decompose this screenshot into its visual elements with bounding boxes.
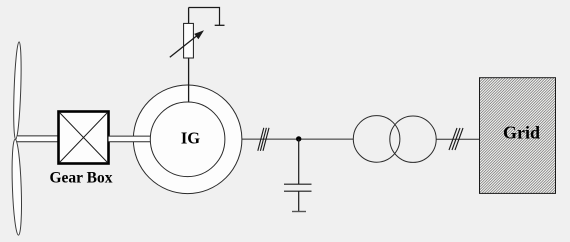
resistor arrow (170, 30, 204, 57)
transformer T secondary (390, 116, 436, 162)
wire capacitor to terminal (298, 191, 300, 211)
IG rotor (inner circle) (150, 102, 225, 177)
ground terminal bar (292, 211, 306, 213)
wire transformer to grid (436, 138, 479, 140)
three-phase slash marks 1 (258, 128, 269, 151)
induction generator IG stator (outer circle) (133, 85, 242, 194)
wire top bracket (189, 8, 225, 26)
svg-text:IG: IG (181, 129, 200, 148)
variable resistor R (rotor resistance) (184, 23, 194, 58)
junction node (296, 136, 301, 141)
three-phase slash marks 2 (449, 128, 463, 150)
wire IG rotor to resistor (188, 8, 190, 104)
svg-text:Gear Box: Gear Box (50, 170, 113, 187)
grid block (480, 78, 556, 194)
wire IG to transformer (242, 138, 354, 140)
gear box GB (59, 112, 109, 164)
svg-text:Grid: Grid (503, 123, 540, 143)
wire node to capacitor (298, 139, 300, 184)
turbine blade lower (11, 139, 23, 235)
shaft hub to gear box (17, 136, 59, 142)
turbine blade upper (12, 42, 22, 140)
capacitor C (284, 184, 312, 191)
transformer T primary (353, 116, 400, 163)
shaft gear box to IG (109, 136, 152, 142)
